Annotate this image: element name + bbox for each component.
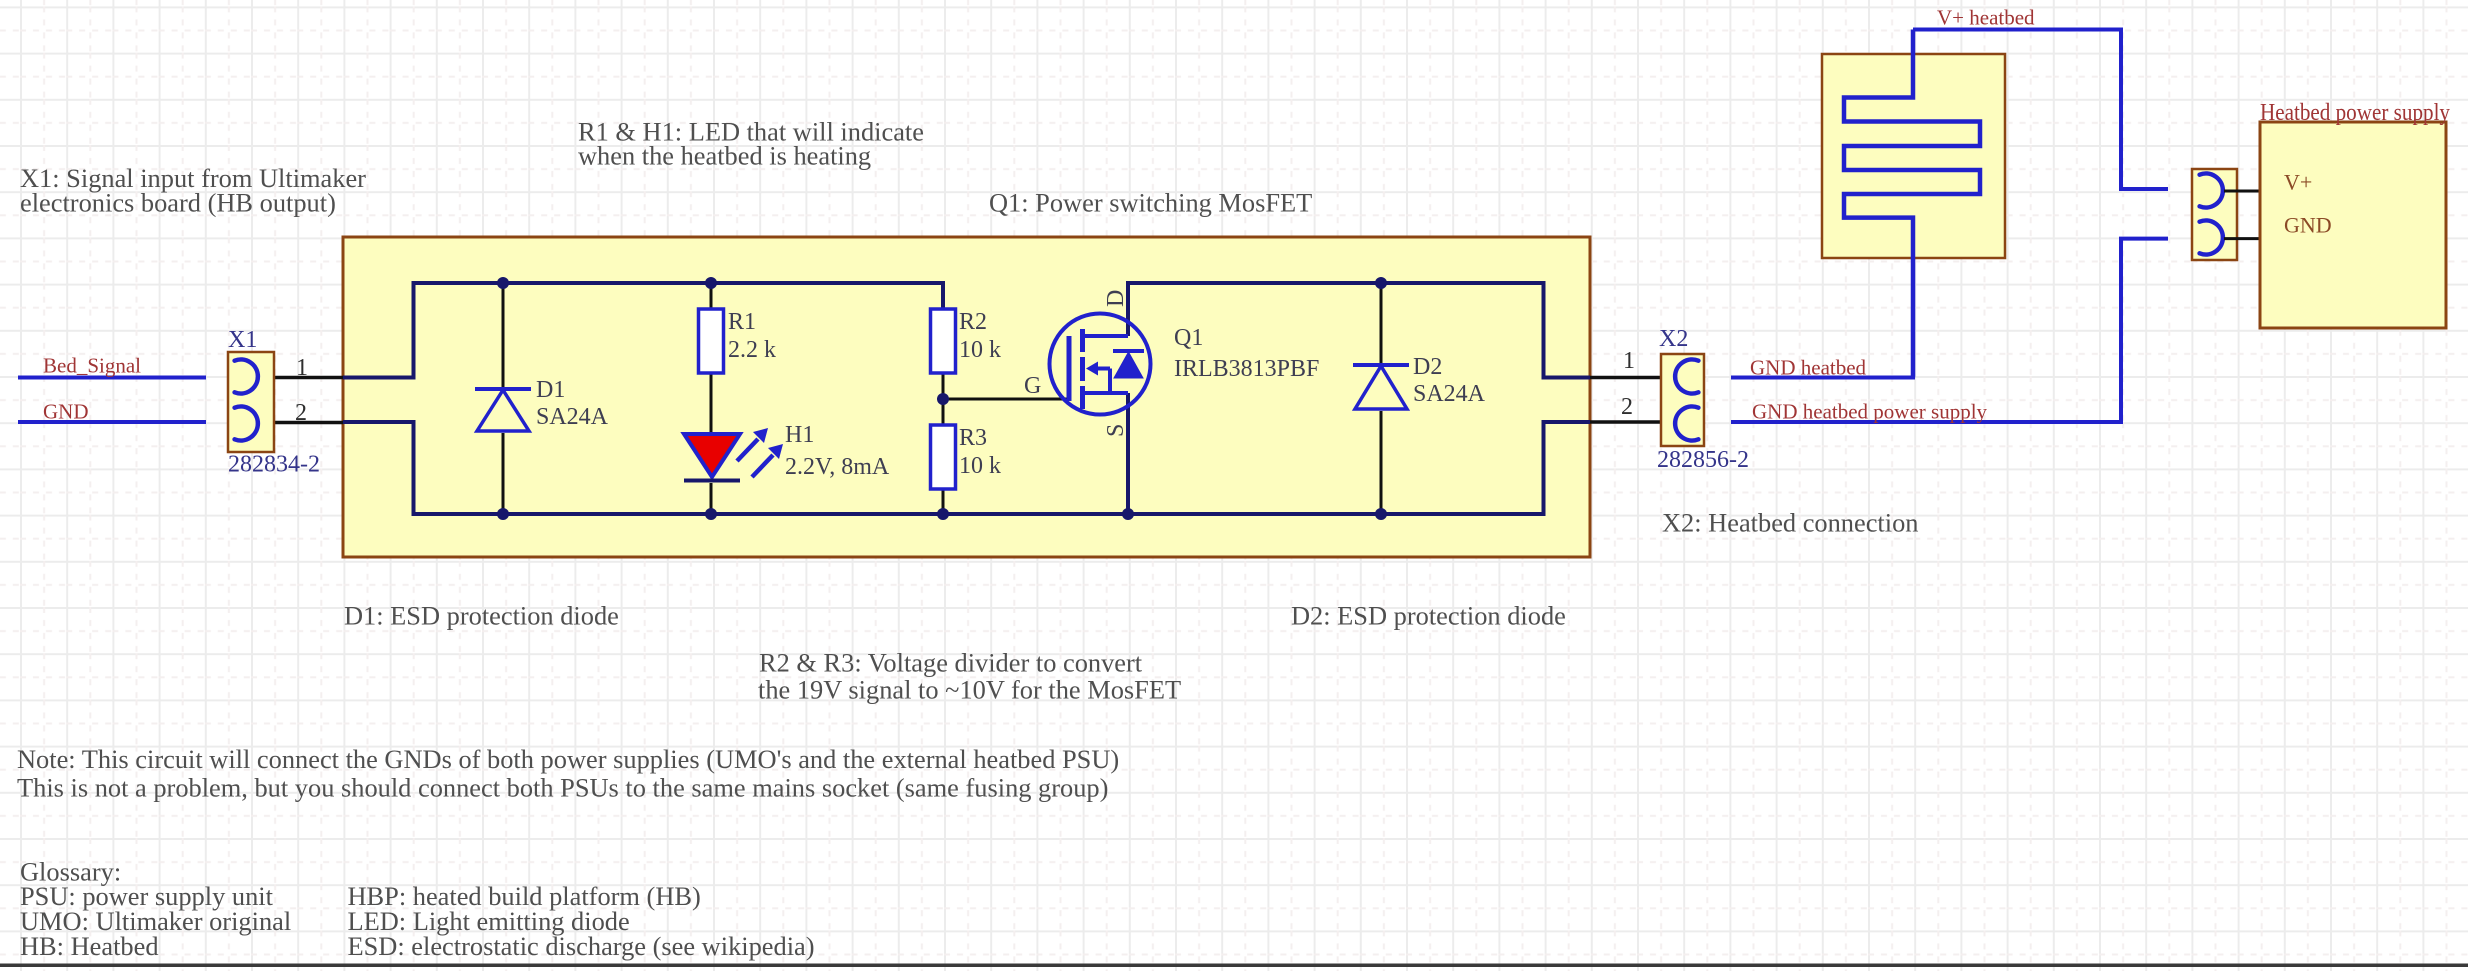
wire: gate wire to Q1 <box>943 398 1067 401</box>
wire: drain rail (Q1 drain to X2 pin1) <box>1128 283 1590 378</box>
wire: signal rail (X1 pin1 to R2 top) <box>343 283 943 378</box>
svg-text:R1: R1 <box>728 309 756 335</box>
svg-text:Heatbed power supply: Heatbed power supply <box>2260 100 2450 126</box>
node: D1 top junction <box>497 277 509 289</box>
svg-text:R2 & R3: Voltage divider to co: R2 & R3: Voltage divider to convert <box>759 648 1143 678</box>
wire: GND heatbed power supply net <box>1731 239 2168 422</box>
wire: GND input <box>18 420 206 424</box>
svg-text:D2: ESD protection diode: D2: ESD protection diode <box>1291 601 1566 631</box>
svg-text:GND heatbed power supply: GND heatbed power supply <box>1752 400 1988 424</box>
node: R1 top junction <box>705 277 717 289</box>
wire: PSU pin2 stub <box>2224 237 2259 240</box>
X1 socket arc pin2 <box>235 407 258 441</box>
X1 socket arc pin1 <box>235 360 258 394</box>
wire: PSU pin1 stub <box>2224 190 2259 193</box>
wire: Bed_Signal input <box>18 376 206 380</box>
wire: Q1 source to ground rail <box>1126 393 1130 514</box>
svg-text:1: 1 <box>1623 348 1635 374</box>
resistor R3 <box>931 425 956 489</box>
svg-text:Q1: Q1 <box>1174 325 1203 351</box>
node: D2 bottom junction <box>1375 508 1387 520</box>
PSU socket arc pin1 <box>2200 173 2223 207</box>
wire: GND heatbed net <box>1731 258 1913 378</box>
node: R3 bottom junction <box>937 508 949 520</box>
svg-text:GND heatbed: GND heatbed <box>1750 356 1867 380</box>
svg-text:Q1: Power switching MosFET: Q1: Power switching MosFET <box>989 188 1312 218</box>
wire: D2 branch <box>1380 283 1383 514</box>
svg-text:R3: R3 <box>959 425 987 451</box>
svg-text:H1: H1 <box>785 422 814 448</box>
svg-text:282834-2: 282834-2 <box>228 451 320 477</box>
svg-text:X2: Heatbed connection: X2: Heatbed connection <box>1662 508 1918 538</box>
svg-text:G: G <box>1024 373 1041 399</box>
wire: V+ heatbed net <box>1913 30 2168 190</box>
heatbed element box <box>1822 54 2005 258</box>
svg-text:SA24A: SA24A <box>1413 381 1486 407</box>
resistor R1 <box>699 309 724 373</box>
bottom window edge line <box>0 964 2468 968</box>
connector X2 <box>1661 354 1704 446</box>
svg-text:IRLB3813PBF: IRLB3813PBF <box>1174 356 1319 382</box>
node: gate divider junction <box>937 393 949 405</box>
svg-text:D2: D2 <box>1413 354 1442 380</box>
diode D1 <box>475 389 531 431</box>
svg-text:2.2V, 8mA: 2.2V, 8mA <box>785 454 890 480</box>
wire: ground rail (X1 pin2 to X2 pin2) <box>343 422 1590 514</box>
svg-text:HB: Heatbed: HB: Heatbed <box>20 931 159 961</box>
main circuit block (yellow) <box>343 237 1590 557</box>
X2 socket arc pin1 <box>1675 359 1698 393</box>
wire: R1 / H1 branch <box>710 283 713 514</box>
svg-text:This is not a problem, but you: This is not a problem, but you should co… <box>17 772 1108 802</box>
wire: X2 pin1 stub <box>1590 376 1677 380</box>
svg-text:10 k: 10 k <box>959 337 1001 363</box>
svg-text:V+ heatbed: V+ heatbed <box>1937 6 2035 30</box>
heatbed power supply connector <box>2192 169 2237 260</box>
svg-text:X2: X2 <box>1659 326 1688 352</box>
PSU socket arc pin2 <box>2200 220 2223 254</box>
node: Q1 source junction <box>1122 508 1134 520</box>
node: D1 bottom junction <box>497 508 509 520</box>
wire: D1 branch <box>502 283 505 514</box>
wire: X2 pin2 stub <box>1590 420 1677 424</box>
svg-text:S: S <box>1103 424 1129 437</box>
wire: R2 / R3 branch <box>942 373 945 514</box>
svg-text:SA24A: SA24A <box>536 404 609 430</box>
svg-text:1: 1 <box>296 355 308 381</box>
connector X1 <box>228 352 274 452</box>
node: D2 top junction <box>1375 277 1387 289</box>
svg-text:when the heatbed is heating: when the heatbed is heating <box>578 141 871 171</box>
heatbed heating element <box>1844 30 1980 378</box>
wire: X1 pin2 stub <box>258 421 343 425</box>
svg-text:2: 2 <box>1621 394 1633 420</box>
svg-text:282856-2: 282856-2 <box>1657 447 1749 473</box>
svg-text:ESD: electrostatic discharge (: ESD: electrostatic discharge (see wikipe… <box>348 931 815 961</box>
svg-text:10 k: 10 k <box>959 453 1001 479</box>
node: H1 bottom junction <box>705 508 717 520</box>
svg-text:the 19V signal to ~10V for the: the 19V signal to ~10V for the MosFET <box>758 675 1181 705</box>
svg-text:D: D <box>1103 290 1129 307</box>
svg-text:D1: ESD protection diode: D1: ESD protection diode <box>344 601 619 631</box>
svg-text:GND: GND <box>43 400 89 424</box>
resistor R2 <box>931 309 956 373</box>
svg-text:R2: R2 <box>959 309 987 335</box>
svg-text:X1: X1 <box>228 327 257 353</box>
X2 socket arc pin2 <box>1675 407 1698 441</box>
svg-text:GND: GND <box>2284 213 2332 238</box>
LED H1 <box>684 428 783 481</box>
wire: X1 pin1 stub <box>258 376 343 380</box>
svg-text:Bed_Signal: Bed_Signal <box>43 354 141 378</box>
svg-text:V+: V+ <box>2284 170 2312 195</box>
svg-text:electronics board (HB output): electronics board (HB output) <box>20 187 336 217</box>
svg-text:Note: This circuit will connec: Note: This circuit will connect the GNDs… <box>17 744 1119 774</box>
transistor Q1 (MOSFET) <box>1050 314 1151 415</box>
svg-text:2.2 k: 2.2 k <box>728 337 776 363</box>
svg-text:2: 2 <box>295 400 307 426</box>
svg-text:D1: D1 <box>536 377 565 403</box>
heatbed power supply box <box>2260 122 2446 328</box>
diode D2 <box>1353 365 1409 409</box>
